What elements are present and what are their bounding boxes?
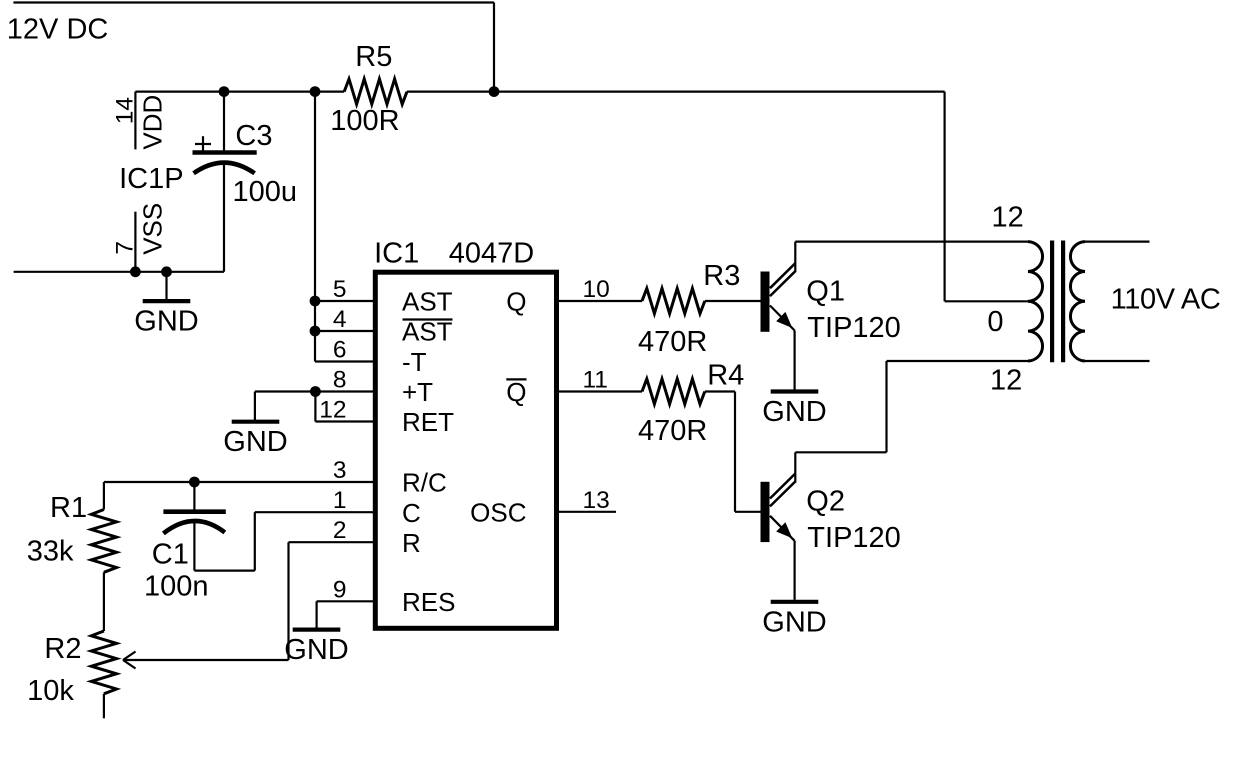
- svg-text:4: 4: [333, 306, 347, 333]
- svg-text:Q: Q: [506, 287, 526, 317]
- svg-text:R: R: [402, 528, 421, 558]
- svg-text:4047D: 4047D: [449, 238, 534, 270]
- svg-text:AST: AST: [402, 317, 453, 347]
- svg-text:100u: 100u: [233, 176, 298, 208]
- svg-text:-T: -T: [402, 347, 427, 377]
- svg-text:IC1: IC1: [374, 238, 419, 270]
- svg-text:12: 12: [992, 202, 1024, 234]
- svg-text:12: 12: [990, 364, 1022, 396]
- svg-text:10k: 10k: [27, 675, 74, 707]
- svg-text:C: C: [402, 498, 421, 528]
- svg-text:7: 7: [112, 241, 139, 255]
- svg-text:3: 3: [333, 457, 347, 484]
- svg-text:Q1: Q1: [806, 275, 845, 307]
- svg-text:10: 10: [583, 276, 610, 303]
- svg-text:VSS: VSS: [138, 203, 168, 255]
- svg-text:R5: R5: [355, 41, 392, 73]
- svg-text:RET: RET: [402, 407, 454, 437]
- svg-text:33k: 33k: [27, 535, 74, 567]
- svg-text:R4: R4: [707, 359, 744, 391]
- svg-text:6: 6: [333, 337, 347, 364]
- svg-text:IC1P: IC1P: [119, 163, 183, 195]
- svg-text:TIP120: TIP120: [807, 312, 901, 344]
- svg-text:OSC: OSC: [470, 497, 526, 527]
- svg-text:12: 12: [319, 397, 346, 424]
- svg-text:12V DC: 12V DC: [7, 14, 109, 46]
- svg-text:8: 8: [333, 367, 347, 394]
- svg-text:GND: GND: [223, 426, 287, 458]
- svg-text:9: 9: [333, 576, 347, 603]
- svg-text:470R: 470R: [638, 326, 707, 358]
- svg-text:100R: 100R: [330, 105, 399, 137]
- svg-text:110V AC: 110V AC: [1111, 284, 1221, 316]
- svg-text:R2: R2: [44, 633, 81, 665]
- svg-text:GND: GND: [762, 396, 826, 428]
- svg-text:470R: 470R: [638, 415, 707, 447]
- svg-text:R1: R1: [50, 492, 87, 524]
- svg-text:13: 13: [583, 487, 610, 514]
- svg-text:C1: C1: [152, 538, 189, 570]
- svg-text:VDD: VDD: [138, 95, 168, 150]
- svg-text:Q2: Q2: [806, 486, 845, 518]
- svg-text:AST: AST: [402, 287, 453, 317]
- svg-text:R3: R3: [703, 260, 740, 292]
- svg-text:14: 14: [112, 97, 139, 124]
- svg-text:RES: RES: [402, 587, 455, 617]
- svg-text:GND: GND: [134, 306, 198, 338]
- svg-text:C3: C3: [235, 120, 272, 152]
- svg-text:1: 1: [333, 487, 347, 514]
- svg-text:5: 5: [333, 276, 347, 303]
- svg-text:R/C: R/C: [402, 468, 447, 498]
- svg-text:100n: 100n: [144, 571, 209, 603]
- svg-text:11: 11: [583, 367, 608, 394]
- svg-text:TIP120: TIP120: [807, 522, 901, 554]
- svg-text:0: 0: [987, 306, 1003, 338]
- svg-text:GND: GND: [284, 634, 348, 666]
- svg-text:2: 2: [333, 517, 347, 544]
- svg-text:Q: Q: [506, 377, 526, 407]
- svg-text:+T: +T: [402, 377, 433, 407]
- svg-text:GND: GND: [762, 606, 826, 638]
